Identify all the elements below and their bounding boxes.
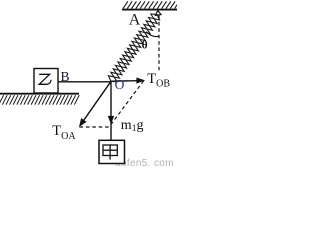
svg-text:O: O <box>115 77 125 92</box>
svg-text:θ: θ <box>142 39 148 51</box>
svg-text:B: B <box>61 69 70 84</box>
svg-text:A: A <box>129 11 141 28</box>
